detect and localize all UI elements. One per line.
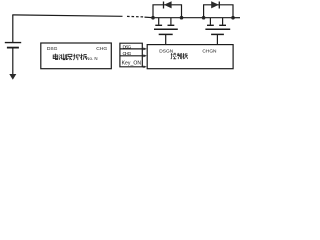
svg-text:CHGN: CHGN [202, 48, 217, 54]
svg-text:CHG: CHG [96, 46, 107, 52]
transistor Q1 (discharge MOSFET) [151, 1, 183, 44]
svg-text:DSG: DSG [123, 44, 132, 50]
wire DSG row separator / arrow to control board [120, 48, 144, 50]
wire Key_ON bottom / arrow to control board [142, 66, 144, 68]
wire Q2 rail [204, 17, 233, 19]
wire top rail solid left segment [12, 15, 122, 16]
wire Q1 body-diode loop [153, 5, 182, 18]
battery negative plate [7, 47, 19, 49]
wire short segment to Q1 source [145, 16, 154, 19]
char 保 [66, 54, 72, 60]
transistor Q2 (charge MOSFET) [202, 1, 235, 44]
char 池 [59, 54, 65, 60]
char 板 [183, 53, 188, 59]
svg-text:DSG: DSG [47, 46, 58, 52]
char 制 [177, 53, 182, 59]
char 板 [80, 54, 87, 60]
diode D1 body diode (cathode left) [163, 2, 165, 9]
transistor Q1 gate bar [159, 33, 173, 35]
transistor Q2 channel bar [205, 28, 230, 30]
wire Q2 body-diode loop [204, 5, 233, 18]
battery BT1 [5, 43, 21, 80]
svg-text:CHG: CHG [123, 51, 132, 57]
connector label block DSG/CHG/Key_ON [120, 43, 147, 68]
node Q2 left junction [202, 16, 206, 20]
wire CHG row separator / arrow to control board [120, 55, 144, 57]
diode D2 body diode (cathode right) [211, 1, 219, 8]
transistor Q1 channel bar [154, 28, 178, 30]
wire battery positive to top rail (vertical) [12, 15, 14, 42]
transistor Q1 source lead [170, 18, 172, 25]
control board box [147, 45, 233, 69]
label 电池保护板 (battery protection board) pseudo CJK glyphs [53, 54, 87, 61]
char 控 [171, 53, 176, 59]
wire top rail to right edge [233, 17, 240, 19]
wire Q2 gate to control board CHGN [216, 34, 218, 44]
node Q2 right junction [231, 16, 235, 20]
battery positive plate [5, 42, 21, 44]
label box frame [120, 43, 142, 67]
transistor Q2 drain lead [209, 18, 211, 25]
char 护 [73, 54, 79, 60]
wire dashed break segment [127, 15, 144, 18]
transistor Q2 gate bar [211, 33, 224, 35]
arrow battery string continues [9, 74, 16, 80]
label 控制板 (control board) pseudo CJK glyphs [171, 53, 188, 59]
wire between Q1 and Q2 [182, 17, 204, 19]
svg-text:Key_ON: Key_ON [122, 61, 142, 67]
wire Q1 gate to control board DSGN [165, 34, 167, 44]
svg-text:No. N: No. N [86, 56, 97, 61]
node Q1 left junction [151, 16, 155, 20]
battery protection board box [41, 43, 112, 69]
node Q1 right junction [180, 16, 184, 20]
wire battery negative down [12, 49, 14, 75]
wire Q1 rail [153, 17, 182, 19]
transistor Q2 source lead [222, 18, 224, 25]
char 电 [53, 54, 58, 60]
transistor Q1 drain lead [158, 18, 160, 25]
